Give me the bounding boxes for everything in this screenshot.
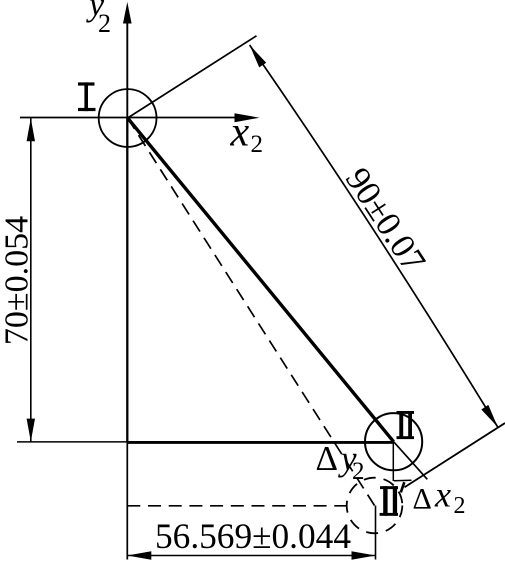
left extension line at bottom corner level bbox=[17, 441, 127, 443]
56-dim left arrowhead bbox=[127, 551, 151, 559]
svg-text:Δ: Δ bbox=[413, 483, 432, 516]
dashed horizontal line at II' level bbox=[127, 505, 347, 507]
90-dim bottom arrowhead bbox=[481, 405, 498, 427]
56-dim right arrowhead bbox=[352, 551, 376, 559]
triangle left side: vertical from I down to corner bbox=[126, 118, 128, 443]
x2 axis arrowhead bbox=[235, 113, 260, 122]
70-dim bottom arrowhead bbox=[27, 419, 35, 442]
svg-text:2: 2 bbox=[98, 9, 111, 38]
dimension line 90±0.07 diagonal bbox=[250, 45, 498, 427]
70-dim top arrowhead bbox=[27, 118, 35, 141]
extension line from I up-right for 90-dim bbox=[128, 36, 257, 118]
dimension line 70±0.054 vertical bbox=[30, 118, 32, 441]
vertical continuation below corner down past bottom dimension bbox=[126, 442, 128, 559]
dashed circle II' bbox=[347, 478, 403, 534]
svg-text:x: x bbox=[230, 110, 250, 156]
y2 axis arrowhead bbox=[123, 2, 132, 24]
hypotenuse: thick line from I to II bbox=[128, 118, 394, 442]
short horizontal mark above II' label bbox=[394, 479, 412, 482]
svg-text:Δ: Δ bbox=[316, 439, 339, 478]
x2 axis horizontal line (with left extension to 70-dim) bbox=[20, 117, 238, 119]
svg-text:2: 2 bbox=[251, 131, 264, 158]
y2 axis vertical line above origin bbox=[126, 14, 128, 118]
thin vertical from II' down to bottom dimension bbox=[375, 506, 377, 560]
dimension line 56.569±0.044 horizontal bbox=[127, 555, 375, 557]
svg-text:70±0.054: 70±0.054 bbox=[0, 216, 36, 345]
svg-text:56.569±0.044: 56.569±0.044 bbox=[155, 516, 351, 556]
thin vertical from II down to II' label bbox=[392, 442, 394, 481]
triangle bottom side: thick horizontal from corner to II bbox=[127, 441, 393, 444]
label II' (drawn as serif rects plus prime) bbox=[380, 486, 398, 489]
svg-text:2: 2 bbox=[454, 493, 466, 519]
circle II bbox=[365, 413, 422, 470]
label I (drawn as serif rects) bbox=[78, 82, 95, 85]
extension line from II' up-right for 90-dim bbox=[405, 423, 505, 487]
dashed line from I to II' bbox=[128, 118, 375, 506]
90-dim top arrowhead bbox=[250, 45, 267, 67]
svg-text:2: 2 bbox=[352, 458, 365, 485]
label II (drawn as serif rects) bbox=[397, 411, 415, 414]
thin continuation of hypotenuse beyond II bbox=[394, 442, 428, 480]
svg-text:x: x bbox=[434, 475, 451, 515]
circle I at origin bbox=[99, 89, 157, 147]
